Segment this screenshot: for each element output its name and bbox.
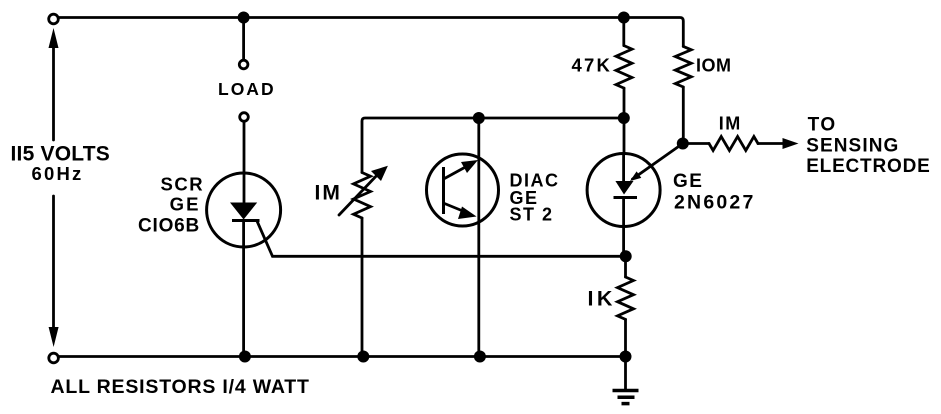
svg-text:SENSING: SENSING (806, 135, 899, 156)
svg-text:60Hz: 60Hz (32, 163, 84, 184)
svg-text:ST 2: ST 2 (510, 204, 554, 224)
svg-text:IK: IK (588, 287, 616, 311)
svg-text:SCR: SCR (161, 173, 205, 194)
svg-text:GE: GE (673, 171, 703, 192)
svg-text:IOM: IOM (696, 56, 732, 76)
svg-text:ELECTRODE: ELECTRODE (806, 156, 930, 177)
svg-text:LOAD: LOAD (218, 79, 276, 99)
svg-text:IM: IM (315, 182, 342, 205)
svg-text:2N6027: 2N6027 (674, 192, 756, 214)
svg-text:IM: IM (719, 114, 742, 134)
svg-text:GE: GE (170, 194, 201, 215)
svg-text:ALL RESISTORS I/4 WATT: ALL RESISTORS I/4 WATT (51, 376, 310, 398)
svg-text:47K: 47K (572, 55, 613, 76)
svg-text:CIO6B: CIO6B (138, 216, 200, 237)
svg-text:TO: TO (808, 115, 837, 136)
